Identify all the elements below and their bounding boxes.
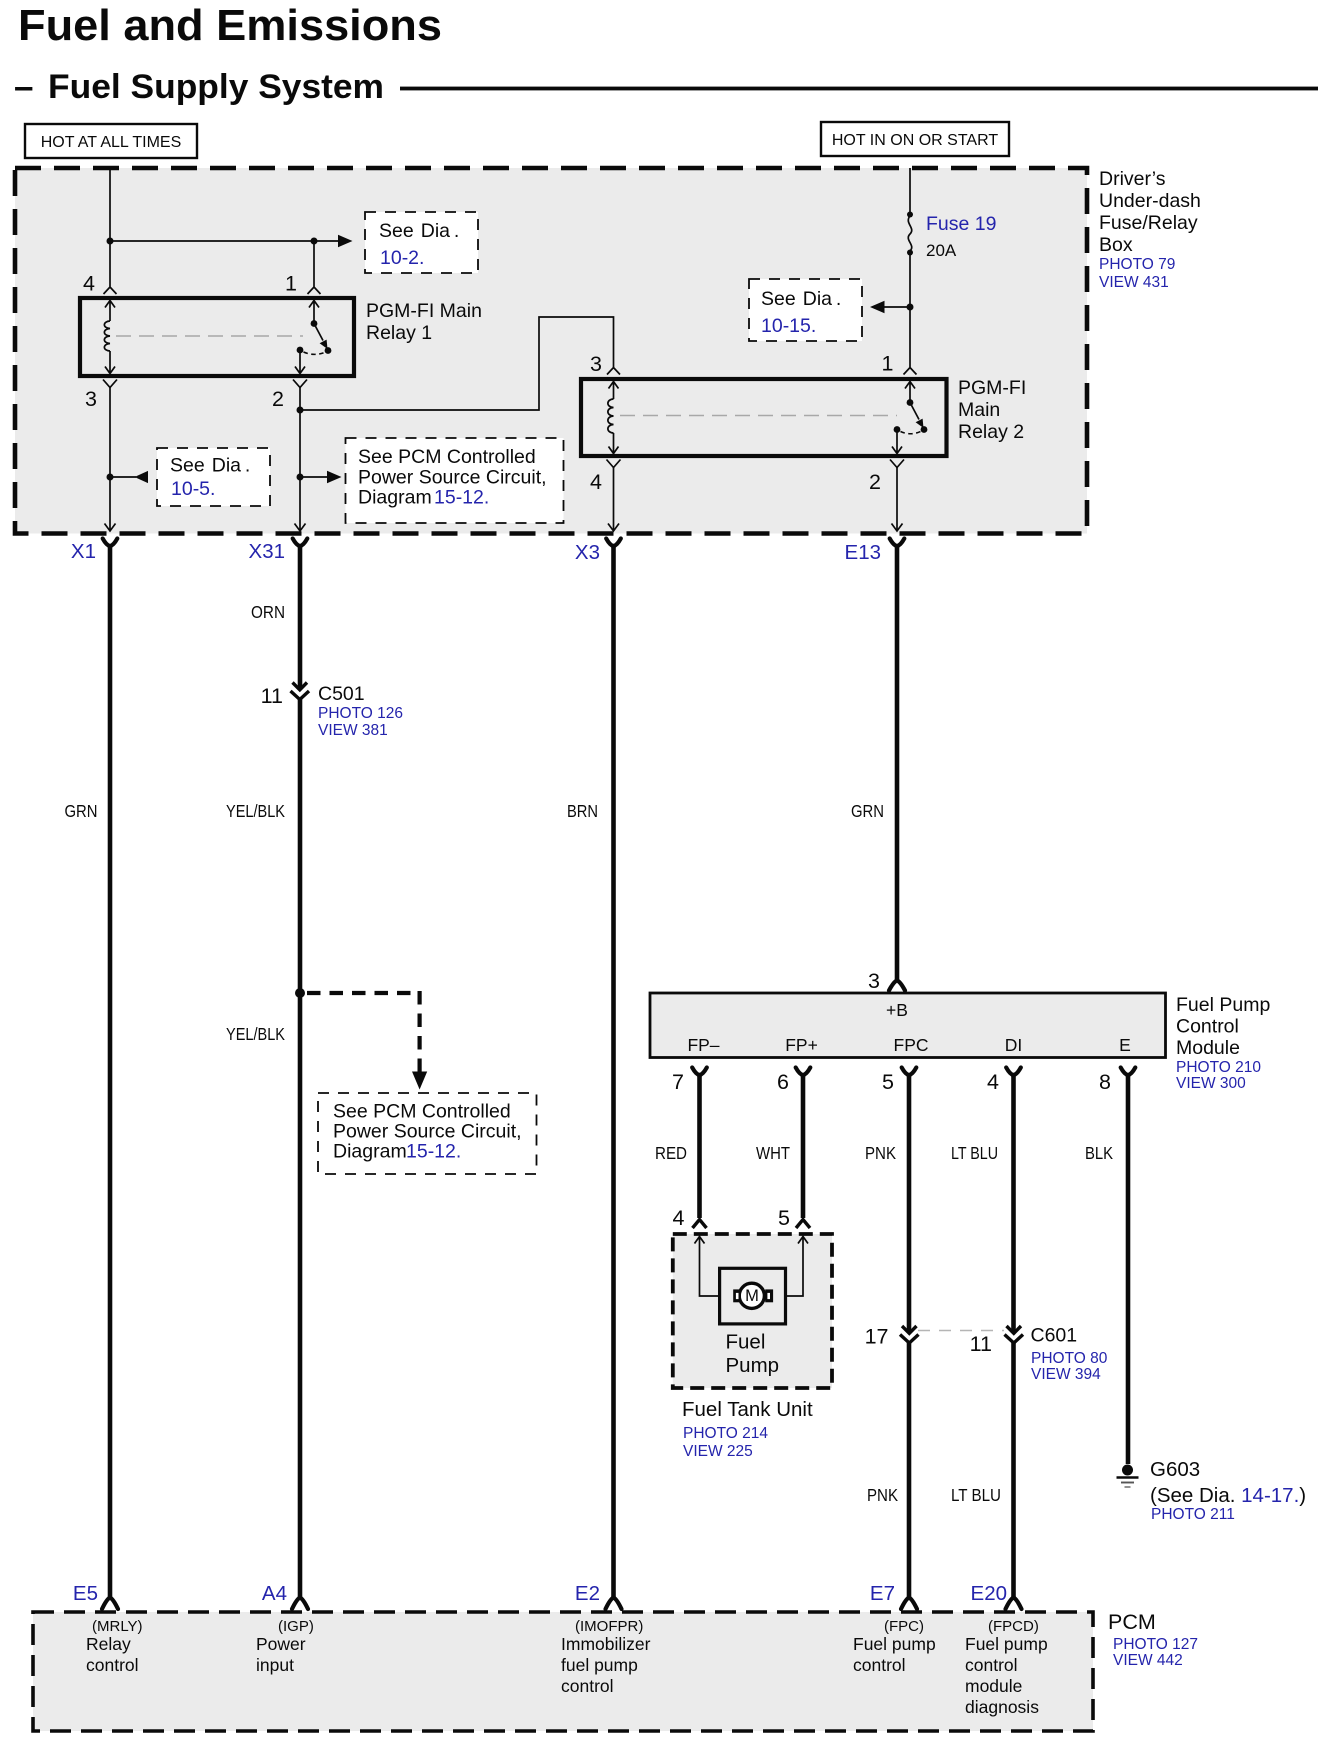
connector cup module pin5 (902, 1068, 917, 1076)
svg-text:Fuel: Fuel (726, 1331, 766, 1354)
svg-text:PHOTO 127: PHOTO 127 (1113, 1636, 1198, 1653)
svg-text:Immobilizer: Immobilizer (561, 1634, 651, 1654)
arrow into See Dia 10-2 (338, 235, 353, 247)
svg-text:HOT AT ALL TIMES: HOT AT ALL TIMES (41, 134, 182, 151)
svg-text:15-12.: 15-12. (434, 487, 489, 509)
label IMOFPR immobilizer fuel pump control (561, 1618, 651, 1696)
svg-text:PHOTO 211: PHOTO 211 (1151, 1506, 1235, 1523)
svg-text:(See Dia. 14-17.): (See Dia. 14-17.) (1150, 1484, 1306, 1507)
fuel pump motor box (720, 1268, 786, 1324)
relay R2 coil exit arrow (609, 433, 619, 454)
svg-text:8: 8 (1099, 1070, 1111, 1094)
svg-text:Fuel Supply System: Fuel Supply System (48, 68, 384, 106)
svg-text:3: 3 (85, 387, 97, 411)
node YEL/BLK branch junction (295, 988, 305, 998)
svg-text:DI: DI (1005, 1035, 1023, 1055)
label HOT IN ON OR START (821, 122, 1009, 156)
svg-text:1: 1 (285, 272, 297, 296)
label IGP power input (256, 1618, 314, 1675)
svg-text:15-12.: 15-12. (406, 1141, 461, 1163)
label FPC fuel pump control (853, 1618, 936, 1675)
svg-text:GRN: GRN (851, 801, 884, 821)
wire relay1 pin2 to relay2 pin3 (300, 317, 614, 410)
svg-text:control: control (86, 1655, 139, 1675)
svg-text:E2: E2 (575, 1582, 600, 1605)
node pin2 junction to relay2 (297, 407, 304, 414)
exit arrow X3 (608, 524, 619, 532)
See PCM Controlled Power Source Circuit box upper (346, 438, 564, 523)
svg-text:diagnosis: diagnosis (965, 1697, 1039, 1717)
wire BLK E ground (1126, 1074, 1131, 1465)
pin 2 chevron relay2 (890, 460, 904, 468)
svg-text:PGM-FI Main: PGM-FI Main (366, 300, 482, 322)
fuse/relay box (Driver's Under-dash Fuse/Relay Box) (15, 168, 1087, 534)
connector E7 inverted cup (901, 1598, 917, 1610)
svg-text:Power Source Circuit,: Power Source Circuit, (358, 467, 547, 489)
connector C501 arrow (293, 683, 308, 690)
ground G603 symbol (1117, 1478, 1139, 1488)
svg-text:PGM-FI: PGM-FI (958, 377, 1026, 399)
node fuse branch to See Dia 10-15 (907, 304, 914, 311)
svg-text:HOT IN ON OR START: HOT IN ON OR START (832, 132, 998, 149)
svg-text:VIEW 381: VIEW 381 (318, 722, 388, 739)
svg-text:X3: X3 (575, 541, 600, 564)
svg-text:Pump: Pump (726, 1354, 780, 1377)
fuel pump control module box (650, 993, 1166, 1058)
exit arrow E13 (892, 524, 903, 532)
svg-text:BLK: BLK (1085, 1143, 1113, 1163)
connector cup module pin7 (692, 1068, 707, 1076)
svg-text:7: 7 (672, 1070, 684, 1094)
label FPCD fuel pump control module diagnosis (965, 1618, 1048, 1717)
svg-text:E20: E20 (971, 1582, 1007, 1605)
relay R1 pin2 exit arrow (295, 350, 305, 374)
relay R1 switch contact node left (297, 347, 304, 354)
wire ORN/YEL-BLK X31 upper (298, 545, 303, 690)
fuse F19 node bottom (907, 250, 913, 256)
connector C601 dashed link (918, 1330, 1004, 1332)
svg-text:Fuel pump: Fuel pump (965, 1634, 1048, 1654)
svg-text:VIEW 394: VIEW 394 (1031, 1366, 1101, 1383)
svg-text:Fuse 19: Fuse 19 (926, 213, 996, 235)
svg-text:Under-dash: Under-dash (1099, 190, 1201, 212)
svg-text:Power Source Circuit,: Power Source Circuit, (333, 1121, 522, 1143)
relay R1 switch dashed arc (304, 352, 325, 354)
svg-text:+B: +B (886, 1000, 908, 1020)
label MRLY relay control (86, 1618, 143, 1675)
node junction X1/branch (107, 238, 114, 245)
svg-text:See Dia .: See Dia . (170, 455, 250, 477)
ground G603 node (1122, 1465, 1133, 1476)
wire fuse to relay2 pin1 (909, 253, 911, 368)
tank pin 4 entry arrow (695, 1237, 734, 1297)
wire dashed branch to PCM power source note (307, 991, 420, 1073)
relay R1 switch blade (314, 324, 323, 341)
svg-text:5: 5 (778, 1206, 790, 1230)
fuse F19 element (908, 216, 911, 251)
connector C501 cup (291, 691, 310, 700)
svg-text:See PCM Controlled: See PCM Controlled (333, 1101, 511, 1123)
svg-text:Main: Main (958, 399, 1000, 421)
svg-text:See PCM Controlled: See PCM Controlled (358, 446, 536, 468)
wire X1 vertical top (109, 168, 111, 287)
svg-text:(IGP): (IGP) (278, 1618, 314, 1635)
node X1 see-dia junction (107, 474, 114, 481)
relay R2 dashed link line (620, 415, 897, 417)
wire relay1 pin2 lower (299, 388, 301, 532)
svg-text:4: 4 (673, 1206, 685, 1230)
svg-text:10-15.: 10-15. (761, 315, 816, 337)
fuse F19 node top (907, 212, 913, 218)
wire LT BLU DI lower (1011, 1343, 1016, 1600)
svg-text:3: 3 (868, 969, 880, 993)
svg-text:See Dia .: See Dia . (379, 220, 459, 242)
svg-text:control: control (965, 1655, 1018, 1675)
pin 1 chevron relay2 (904, 368, 917, 375)
svg-text:4: 4 (590, 470, 602, 494)
label PGM-FI Main Relay 2 (958, 377, 1026, 443)
pin 3 chevron relay2 (607, 368, 620, 375)
svg-text:Relay: Relay (86, 1634, 131, 1654)
motor M circle (739, 1283, 764, 1308)
svg-text:BRN: BRN (567, 801, 598, 821)
svg-text:FP+: FP+ (785, 1035, 818, 1055)
wire X1 lower (109, 388, 111, 532)
label HOT AT ALL TIMES (25, 124, 197, 158)
tank pin 5 chevron (796, 1220, 810, 1229)
connector E5 inverted cup (102, 1598, 118, 1610)
svg-text:PNK: PNK (865, 1143, 896, 1163)
connector cup module pin6 (796, 1068, 811, 1076)
svg-text:10-5.: 10-5. (171, 478, 215, 500)
svg-text:(FPCD): (FPCD) (988, 1618, 1039, 1635)
wire GRN X1 to E5 (108, 545, 113, 1600)
svg-text:M: M (745, 1287, 759, 1305)
relay R1 coil entry arrow (105, 301, 115, 322)
relay R2 switch blade (910, 403, 919, 420)
pin 1 chevron relay1 (308, 287, 321, 294)
relay R1 box PGM-FI Main Relay 1 (80, 298, 354, 376)
svg-text:20A: 20A (926, 241, 957, 260)
svg-text:X1: X1 (71, 540, 96, 563)
relay R1 coil exit arrow (105, 351, 115, 374)
relay R2 coil entry arrow (609, 382, 619, 400)
svg-text:LT BLU: LT BLU (951, 1485, 1001, 1505)
svg-text:PHOTO 214: PHOTO 214 (683, 1425, 768, 1442)
svg-text:Fuel Pump: Fuel Pump (1176, 994, 1270, 1016)
svg-text:C601: C601 (1031, 1325, 1078, 1347)
relay R2 box PGM-FI Main Relay 2 (581, 379, 947, 456)
svg-text:4: 4 (987, 1070, 999, 1094)
svg-text:Power: Power (256, 1634, 306, 1654)
connector C601 arrow LTBLU (1007, 1326, 1022, 1333)
connector C601 cup PNK (900, 1335, 919, 1344)
svg-text:YEL/BLK: YEL/BLK (226, 1024, 285, 1044)
pin 4 chevron relay2 (607, 460, 621, 468)
svg-text:VIEW 225: VIEW 225 (683, 1443, 753, 1460)
connector X3 cup (606, 539, 621, 547)
svg-text:Box: Box (1099, 234, 1133, 256)
svg-text:C501: C501 (318, 683, 365, 705)
wire stub to See Dia 10-5 (110, 476, 136, 478)
svg-text:X31: X31 (249, 540, 285, 563)
svg-text:control: control (561, 1676, 614, 1696)
svg-text:4: 4 (83, 272, 95, 296)
label PGM-FI Main Relay 1 (366, 300, 482, 344)
svg-text:2: 2 (869, 470, 881, 494)
svg-text:11: 11 (261, 684, 283, 708)
label Driver's Under-dash Fuse/Relay Box (1099, 168, 1201, 291)
svg-text:E5: E5 (73, 1582, 98, 1605)
relay R2 switch common stem (905, 382, 915, 403)
relay R1 switch blade arrowhead (320, 340, 328, 349)
connector cup module pin8 (1121, 1068, 1136, 1076)
label Fuel Pump (726, 1331, 780, 1378)
connector C601 arrow PNK (902, 1326, 917, 1333)
relay R2 switch blade arrowhead (916, 419, 924, 428)
PCM box (33, 1612, 1093, 1731)
wire GRN E13 to module (895, 545, 900, 982)
svg-text:WHT: WHT (756, 1143, 790, 1163)
wire YEL/BLK X31 lower (298, 699, 303, 1599)
svg-text:VIEW 300: VIEW 300 (1176, 1075, 1246, 1092)
svg-text:LT BLU: LT BLU (951, 1143, 998, 1163)
wire fuse feed (909, 168, 911, 214)
relay R1 switch common stem (309, 301, 319, 324)
pin 3 chevron relay1 (103, 380, 117, 388)
wire LT BLU DI upper (1011, 1074, 1016, 1334)
wire E13 inside box (896, 468, 898, 532)
motor brush right (765, 1289, 773, 1302)
svg-text:fuel pump: fuel pump (561, 1655, 638, 1675)
arrow into See Dia 10-15 (870, 301, 885, 313)
arrow dashed branch head (412, 1072, 427, 1090)
svg-text:See Dia .: See Dia . (761, 288, 841, 310)
relay R2 switch common node (907, 399, 914, 406)
svg-text:Relay 2: Relay 2 (958, 421, 1024, 443)
svg-text:Control: Control (1176, 1016, 1239, 1038)
connector X31 cup (293, 539, 308, 547)
connector E13 cup (890, 539, 905, 547)
pin 2 chevron relay1 (293, 380, 307, 388)
svg-text:Module: Module (1176, 1037, 1240, 1059)
wire stub to See Dia 10-15 (884, 306, 910, 308)
svg-text:6: 6 (777, 1070, 789, 1094)
svg-text:(IMOFPR): (IMOFPR) (575, 1618, 643, 1635)
svg-text:PHOTO 80: PHOTO 80 (1031, 1350, 1108, 1367)
svg-text:11: 11 (970, 1332, 992, 1356)
relay R1 coil L1 (104, 321, 110, 351)
relay R1 switch contact node right (325, 347, 332, 354)
svg-text:PNK: PNK (867, 1485, 898, 1505)
svg-text:Diagram: Diagram (358, 487, 432, 509)
exit arrow X31 (295, 524, 306, 532)
wire PNK FPC upper (907, 1074, 912, 1334)
svg-text:YEL/BLK: YEL/BLK (226, 801, 285, 821)
svg-text:Driver’s: Driver’s (1099, 168, 1166, 190)
See Dia 10-2 box (365, 212, 478, 273)
svg-text:Fuel pump: Fuel pump (853, 1634, 936, 1654)
node X31 see-PCM junction (297, 474, 304, 481)
svg-text:Diagram: Diagram (333, 1141, 407, 1163)
svg-text:2: 2 (272, 387, 284, 411)
tank pin 5 entry arrow (772, 1237, 809, 1297)
svg-text:Fuel and Emissions: Fuel and Emissions (18, 1, 442, 50)
svg-text:control: control (853, 1655, 906, 1675)
svg-text:PHOTO 210: PHOTO 210 (1176, 1059, 1261, 1076)
svg-text:FPC: FPC (894, 1035, 929, 1055)
relay R2 pin2 exit arrow (892, 430, 902, 454)
svg-text:FP–: FP– (687, 1035, 719, 1055)
svg-text:G603: G603 (1150, 1458, 1200, 1481)
wire BRN X3 to E2 (611, 545, 616, 1600)
wire X3 inside box (613, 468, 615, 532)
svg-text:PHOTO 79: PHOTO 79 (1099, 256, 1175, 273)
connector E2 inverted cup (606, 1598, 622, 1610)
svg-text:(FPC): (FPC) (884, 1618, 924, 1635)
relay R1 dashed link line (116, 335, 303, 337)
svg-text:PCM: PCM (1108, 1610, 1156, 1634)
motor brush left (733, 1289, 741, 1302)
See Dia 10-15 box (749, 279, 862, 341)
svg-text:(MRLY): (MRLY) (92, 1618, 143, 1635)
svg-text:GRN: GRN (65, 801, 98, 821)
wire PNK FPC lower (907, 1343, 912, 1600)
svg-text:RED: RED (655, 1143, 687, 1163)
exit arrow X1 (105, 524, 116, 532)
wire branch to See Dia 10-2 (110, 240, 339, 242)
svg-text:Relay 1: Relay 1 (366, 322, 432, 344)
svg-text:VIEW 442: VIEW 442 (1113, 1652, 1183, 1669)
svg-text:E13: E13 (845, 541, 881, 564)
subtitle rule (400, 87, 1318, 91)
svg-text:Fuse/Relay: Fuse/Relay (1099, 212, 1198, 234)
arrow from See Dia 10-5 (135, 471, 149, 483)
svg-text:5: 5 (882, 1070, 894, 1094)
svg-text:VIEW 431: VIEW 431 (1099, 274, 1169, 291)
connector A4 inverted cup (292, 1598, 308, 1610)
relay R2 switch dashed arc (901, 432, 921, 434)
connector C601 cup LTBLU (1005, 1335, 1024, 1344)
pin 4 chevron relay1 (104, 287, 117, 294)
svg-text:3: 3 (590, 352, 602, 376)
svg-text:module: module (965, 1676, 1022, 1696)
label Fuel Pump Control Module (1176, 994, 1270, 1092)
svg-text:A4: A4 (262, 1582, 287, 1605)
arrow into See PCM box (327, 471, 342, 483)
connector cup module pin4 (1006, 1068, 1021, 1076)
wire RED FP- (697, 1074, 702, 1219)
connector +B inverted cup (889, 981, 905, 991)
See PCM Controlled Power Source Circuit box lower (318, 1093, 537, 1174)
svg-text:1: 1 (882, 352, 894, 376)
tank pin 4 chevron (693, 1220, 707, 1229)
fuel tank unit box (673, 1234, 832, 1388)
relay R2 switch contact node right (921, 426, 928, 433)
wire WHT FP+ (801, 1074, 806, 1219)
svg-text:PHOTO 126: PHOTO 126 (318, 705, 403, 722)
svg-text:–: – (14, 67, 33, 106)
svg-text:Fuel Tank Unit: Fuel Tank Unit (682, 1398, 813, 1421)
wire stub to See PCM box (300, 476, 327, 478)
relay R1 switch common node (311, 320, 318, 327)
See Dia 10-5 box (157, 448, 270, 506)
svg-text:ORN: ORN (251, 602, 285, 622)
svg-text:E7: E7 (870, 1582, 895, 1605)
relay R2 coil L2 (608, 399, 614, 433)
connector X1 cup (103, 539, 118, 547)
svg-text:input: input (256, 1655, 294, 1675)
node junction pin1 branch (311, 238, 318, 245)
svg-text:E: E (1119, 1035, 1131, 1055)
relay R2 switch contact node left (894, 426, 901, 433)
svg-text:17: 17 (865, 1325, 889, 1349)
svg-text:10-2.: 10-2. (380, 247, 424, 269)
connector E20 inverted cup (1006, 1598, 1022, 1610)
wire relay1 pin1 drop (313, 241, 315, 287)
